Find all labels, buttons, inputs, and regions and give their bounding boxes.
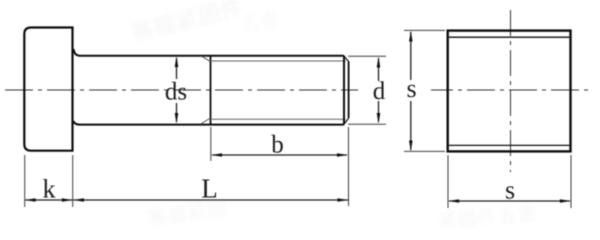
svg-text:k: k	[43, 175, 56, 204]
svg-text:紧固件五金: 紧固件五金	[436, 201, 538, 228]
svg-text:s: s	[505, 176, 515, 205]
svg-text:ds: ds	[165, 79, 187, 106]
svg-text:赛福紧固件: 赛福紧固件	[128, 0, 246, 47]
svg-text:b: b	[271, 132, 284, 159]
svg-text:s: s	[406, 74, 416, 103]
svg-text:d: d	[373, 78, 386, 105]
svg-text:五金: 五金	[239, 7, 282, 37]
svg-text:L: L	[201, 174, 218, 204]
